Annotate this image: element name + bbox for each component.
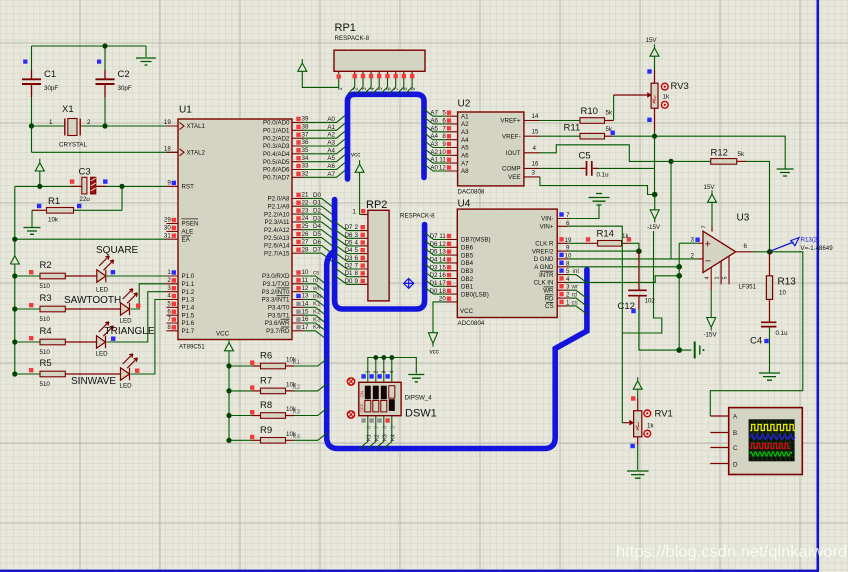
svg-text:vcc: vcc: [351, 152, 360, 159]
svg-text:27: 27: [302, 239, 309, 246]
U2 pins A1-A8 stubs: [447, 116, 458, 171]
RP1 pin1 wire to power: [302, 71, 338, 87]
svg-text:13: 13: [302, 293, 309, 300]
ground (C4): [759, 373, 780, 380]
svg-text:P0.7/AD7: P0.7/AD7: [263, 175, 290, 182]
svg-text:P1.6: P1.6: [182, 320, 195, 327]
net labels D7-D0 (RP2 side): [345, 224, 353, 285]
voltage probe R13(2): [771, 242, 794, 251]
resistor R8: [226, 408, 326, 418]
resistor R5: [15, 368, 121, 377]
ground terminal (analog, right-pointing): [695, 342, 700, 359]
U1 pins P0.0/AD0-P0.7/AD7: [292, 122, 304, 177]
svg-text:2: 2: [167, 277, 171, 284]
ground (RV1): [627, 471, 649, 478]
U1 pin XTAL2: [167, 149, 185, 156]
node CLK IN: [676, 273, 682, 279]
U1 pin PSEN: [167, 223, 179, 225]
svg-text:R1: R1: [48, 196, 60, 207]
svg-text:P2.3/A11: P2.3/A11: [265, 219, 291, 226]
svg-text:1: 1: [167, 269, 171, 276]
svg-text:K2: K2: [293, 384, 301, 391]
svg-text:P1.2: P1.2: [182, 289, 195, 296]
potentiometer RV3: [614, 37, 689, 136]
svg-text:K3: K3: [293, 409, 301, 416]
net labels A0-A7 (U1 side): [327, 116, 335, 178]
svg-text:4: 4: [390, 370, 396, 373]
node output: [767, 249, 773, 255]
svg-text:D3: D3: [345, 255, 353, 262]
svg-text:3: 3: [362, 87, 368, 90]
svg-text:26: 26: [302, 231, 309, 238]
svg-text:8: 8: [366, 426, 372, 429]
svg-text:39: 39: [302, 116, 309, 123]
svg-text:R13: R13: [778, 277, 797, 288]
svg-text:A4: A4: [461, 137, 469, 144]
svg-text:RP2: RP2: [366, 199, 387, 211]
RP2 wires from data bus: [335, 222, 360, 285]
svg-text:5k: 5k: [606, 126, 613, 133]
crystal X1: [65, 119, 80, 136]
svg-text:D3: D3: [313, 215, 321, 222]
svg-text:U4: U4: [458, 199, 471, 210]
svg-text:A5: A5: [461, 145, 469, 152]
svg-text:DSW1: DSW1: [405, 408, 437, 420]
svg-text:D6: D6: [313, 239, 321, 246]
svg-text:SAWTOOTH: SAWTOOTH: [64, 295, 121, 306]
svg-text:D2: D2: [313, 208, 321, 215]
svg-text:510: 510: [40, 381, 51, 388]
svg-text:https://blog.csdn.net/qinkaiwo: https://blog.csdn.net/qinkaiword: [616, 543, 847, 561]
svg-text:7: 7: [702, 225, 708, 228]
svg-text:3: 3: [691, 236, 695, 243]
svg-text:DB6: DB6: [461, 245, 474, 252]
15V terminal (op-amp): [708, 190, 717, 231]
svg-text:1k: 1k: [663, 94, 670, 101]
svg-text:P3.7/RD: P3.7/RD: [266, 328, 290, 335]
-15V terminal (DAC): [650, 195, 659, 223]
svg-text:RESPACK-8: RESPACK-8: [400, 213, 435, 220]
svg-text:30pF: 30pF: [44, 85, 58, 92]
svg-text:2: 2: [87, 119, 91, 126]
svg-text:ADC0804: ADC0804: [458, 320, 485, 327]
power terminal above RST row: [35, 159, 44, 187]
wire VCC rail left: [14, 186, 16, 374]
svg-text:P2.4/A12: P2.4/A12: [264, 227, 290, 234]
U4 A GND wire: [568, 266, 679, 268]
wire op-amp pin3 ground net riser: [679, 243, 698, 350]
svg-text:30: 30: [164, 225, 171, 232]
bus: RP1 address bus loop: [348, 94, 425, 179]
VCC terminal under U1: [225, 340, 234, 441]
svg-text:D5: D5: [313, 231, 321, 238]
svg-text:C3: C3: [79, 167, 91, 178]
svg-text:P1.1: P1.1: [182, 281, 195, 288]
svg-text:14: 14: [532, 113, 539, 120]
svg-text:1: 1: [715, 276, 721, 279]
svg-text:6: 6: [167, 308, 171, 315]
DSW1 slot 2: [373, 386, 379, 400]
svg-text:DB7(MSB): DB7(MSB): [461, 237, 491, 244]
U1 P2 net wires D0-D7 into data bus: [304, 198, 335, 263]
wire C3 to RST pin: [106, 185, 167, 187]
net labels int wr rd cs (U4 side): [571, 268, 580, 306]
svg-text:DIPSW_4: DIPSW_4: [405, 395, 433, 402]
svg-text:R7: R7: [260, 375, 272, 386]
svg-text:29: 29: [164, 217, 171, 224]
bus: data bus U-loop (P2 to RP2/U4): [335, 200, 425, 310]
node C3/R1: [119, 184, 124, 189]
net labels D0-D7 (U1 side): [313, 192, 321, 254]
svg-text:8: 8: [167, 324, 171, 331]
svg-text:D4: D4: [345, 247, 353, 254]
svg-text:A1: A1: [430, 157, 438, 164]
RP1 pin 1: [338, 71, 340, 74]
svg-text:R14: R14: [597, 229, 614, 240]
svg-text:D7: D7: [345, 224, 353, 231]
capacitor C5: [540, 161, 655, 176]
svg-text:1k: 1k: [622, 233, 629, 240]
ground (R1): [24, 228, 41, 235]
svg-text:WR: WR: [543, 287, 554, 294]
svg-text:A0: A0: [327, 116, 335, 123]
svg-text:15V: 15V: [646, 37, 658, 44]
svg-text:VIN+: VIN+: [540, 224, 554, 231]
svg-text:VCC: VCC: [216, 331, 230, 338]
svg-text:3: 3: [167, 285, 171, 292]
svg-text:OFF: OFF: [359, 403, 364, 412]
svg-text:K4: K4: [293, 433, 301, 440]
svg-text:R13(2): R13(2): [801, 237, 820, 244]
ground (top, crystal caps): [136, 58, 156, 65]
svg-text:1: 1: [366, 370, 372, 373]
svg-text:R3: R3: [40, 293, 52, 304]
svg-text:D2: D2: [345, 263, 353, 270]
svg-text:VIN-: VIN-: [541, 216, 553, 223]
wire op-amp output node: [710, 252, 803, 416]
svg-text:+: +: [705, 239, 711, 251]
svg-text:21: 21: [302, 192, 309, 199]
svg-text:38: 38: [302, 124, 309, 131]
LED D-sine: [121, 354, 138, 380]
svg-text:P3.0/RXD: P3.0/RXD: [262, 273, 290, 280]
svg-text:P3.1/TXD: P3.1/TXD: [263, 281, 290, 288]
svg-text:P2.2/A10: P2.2/A10: [264, 211, 290, 218]
DSW1 bottom rotated labels K1-K4: [366, 434, 396, 441]
svg-text:D7: D7: [313, 247, 321, 254]
svg-text:INTR: INTR: [539, 272, 554, 279]
svg-text:23: 23: [302, 207, 309, 214]
wire RST row: [15, 185, 71, 187]
node C1/C2 top junction: [102, 43, 107, 48]
svg-text:A4: A4: [430, 133, 438, 140]
svg-text:10: 10: [779, 290, 786, 297]
U3 pin5 stub: [728, 256, 730, 284]
svg-text:XTAL2: XTAL2: [187, 150, 206, 157]
svg-text:cs: cs: [313, 269, 319, 276]
svg-text:P2.5/A13: P2.5/A13: [264, 235, 290, 242]
svg-text:P0.5/AD5: P0.5/AD5: [263, 159, 290, 166]
svg-text:P0.3/AD3: P0.3/AD3: [263, 143, 290, 150]
svg-text:7: 7: [374, 426, 380, 429]
waveform D green sine: [750, 452, 792, 456]
capacitor C3 (electrolytic): [71, 185, 106, 187]
U1 pin ALE: [167, 230, 179, 232]
svg-text:RESPACK-8: RESPACK-8: [335, 35, 370, 42]
U2 right pins: [524, 121, 540, 177]
svg-text:33: 33: [302, 163, 309, 170]
svg-text:P0.0/AD0: P0.0/AD0: [263, 120, 290, 127]
DSW1 top wires to ground: [368, 358, 417, 383]
svg-text:VEE: VEE: [508, 174, 520, 181]
svg-text:5k: 5k: [606, 110, 613, 117]
svg-text:K4: K4: [313, 324, 321, 331]
U4 control wires into bus: [568, 275, 587, 315]
resistor R12: [671, 159, 770, 252]
svg-text:15V: 15V: [704, 184, 716, 191]
svg-text:4: 4: [370, 87, 376, 90]
svg-text:17: 17: [302, 324, 309, 331]
svg-text:16: 16: [532, 161, 539, 168]
svg-text:intr: intr: [313, 293, 322, 300]
node R5 rail: [12, 371, 17, 376]
svg-text:XTAL1: XTAL1: [187, 123, 206, 130]
svg-text:rd: rd: [313, 277, 319, 284]
svg-text:2: 2: [374, 370, 380, 373]
svg-text:34: 34: [302, 155, 309, 162]
svg-text:K3: K3: [313, 316, 321, 323]
svg-text:P3.2/INT0: P3.2/INT0: [262, 289, 290, 296]
svg-text:P1.5: P1.5: [182, 312, 195, 319]
DSW1 top pin squares: [361, 374, 389, 378]
svg-text:K1: K1: [293, 359, 301, 366]
svg-text:A8: A8: [461, 168, 469, 175]
node -15V: [652, 192, 658, 198]
svg-text:LED: LED: [96, 351, 109, 358]
resistor R1: [47, 208, 74, 214]
DSW1 toggle markers: [347, 378, 354, 418]
U1 pins P3.0-P3.7: [292, 276, 304, 331]
svg-text:0.1u: 0.1u: [776, 330, 789, 337]
waveform A yellow square: [750, 425, 795, 431]
node crystal pin2: [102, 123, 107, 128]
U2 VEE wire to -15V node: [540, 177, 655, 195]
svg-text:5: 5: [723, 276, 729, 279]
svg-text:SQUARE: SQUARE: [96, 245, 139, 256]
svg-text:P3.6/WR: P3.6/WR: [265, 320, 290, 327]
resistor R11: [540, 131, 785, 169]
svg-text:4: 4: [533, 145, 537, 152]
RP1 pins 2-9: [353, 74, 415, 78]
LED D-sawtooth: [121, 289, 138, 315]
svg-text:C4: C4: [750, 336, 762, 347]
svg-text:D: D: [733, 462, 738, 469]
svg-text:15: 15: [302, 308, 309, 315]
svg-text:RV1: RV1: [655, 409, 673, 420]
U4 D GND wire to op-amp pin2 row: [568, 258, 698, 260]
svg-text:510: 510: [40, 349, 51, 356]
DSW1 slot 3: [381, 386, 387, 400]
svg-text:6: 6: [387, 87, 393, 90]
op-amp U3 LF351: [691, 213, 757, 291]
svg-text:TRIANGLE: TRIANGLE: [105, 326, 155, 337]
svg-text:ALE: ALE: [182, 229, 194, 236]
svg-text:CLK R: CLK R: [535, 241, 554, 248]
RP2 pins 2-9 stubs: [359, 231, 368, 285]
svg-text:9: 9: [167, 180, 171, 187]
net labels A7-A0 (U2 side): [430, 110, 438, 172]
svg-text:A7: A7: [461, 160, 469, 167]
VREF- riser down to -15V node: [654, 136, 656, 194]
svg-text:5: 5: [390, 426, 396, 429]
resistor R9: [226, 433, 326, 443]
svg-text:31: 31: [164, 232, 171, 239]
net labels cs rd wr intr K1-K4 (U1 side): [312, 269, 322, 331]
svg-text:D0: D0: [313, 192, 321, 199]
U4 VCC wire and vcc terminal: [428, 302, 446, 347]
svg-text:28: 28: [302, 246, 309, 253]
svg-text:A7: A7: [327, 171, 335, 178]
svg-text:12: 12: [302, 285, 309, 292]
svg-text:RV3: RV3: [671, 81, 689, 92]
svg-text:6: 6: [382, 426, 388, 429]
svg-text:LF351: LF351: [739, 284, 757, 291]
svg-text:36: 36: [302, 139, 309, 146]
svg-text:EA: EA: [182, 236, 191, 243]
sheet border right edge: [816, 0, 819, 571]
resistor R10: [540, 118, 614, 124]
svg-text:9: 9: [411, 87, 417, 90]
U1 P3 net wires cs rd wr intr K1-K4 into control bus: [304, 276, 327, 340]
U3 pin2 stub: [698, 258, 703, 260]
net labels D7-D0 (U4 side): [430, 233, 438, 295]
svg-text:5: 5: [167, 301, 171, 308]
resistor R14: [568, 237, 639, 251]
svg-text:RST: RST: [182, 184, 195, 191]
node A GND: [676, 264, 682, 270]
svg-text:35: 35: [302, 147, 309, 154]
svg-text:V=-1.48649: V=-1.48649: [801, 245, 834, 252]
waveform B blue sine: [750, 435, 795, 440]
svg-text:VREF-: VREF-: [502, 133, 521, 140]
svg-text:32: 32: [302, 171, 309, 178]
U1 pin EA: [167, 238, 179, 240]
node summing: [668, 159, 673, 164]
svg-text:R2: R2: [40, 260, 52, 271]
svg-text:4: 4: [167, 293, 171, 300]
svg-text:R11: R11: [564, 123, 581, 134]
svg-text:PSEN: PSEN: [182, 221, 199, 228]
svg-text:P1.3: P1.3: [182, 297, 195, 304]
svg-text:24: 24: [302, 215, 309, 222]
U4 pins DB7-DB0 stubs: [447, 240, 458, 302]
svg-text:COMP: COMP: [502, 166, 521, 173]
U3 pin1 stub: [720, 261, 722, 284]
node crystal pin1: [29, 123, 34, 128]
node R2 rail: [12, 273, 17, 278]
resistor R3: [15, 303, 121, 312]
svg-text:A2: A2: [461, 121, 469, 128]
svg-text:-15V: -15V: [647, 224, 661, 231]
wire XTAL1 row: [32, 125, 179, 127]
svg-text:A7: A7: [430, 110, 438, 117]
svg-text:VREF+: VREF+: [500, 118, 521, 125]
ground (DSW1): [408, 375, 424, 382]
svg-text:DB0(LSB): DB0(LSB): [461, 292, 489, 299]
svg-text:D6: D6: [345, 232, 353, 239]
wire R1 riser: [74, 186, 123, 210]
U1 pins P1.0-P1.7: [167, 276, 179, 331]
svg-text:P2.0/A8: P2.0/A8: [267, 196, 290, 203]
svg-text:P1.7: P1.7: [182, 328, 195, 335]
ground (VIN-): [568, 194, 610, 219]
potentiometer RV1: [624, 377, 673, 478]
svg-text:11: 11: [302, 277, 309, 284]
svg-text:D1: D1: [345, 270, 353, 277]
capacitor C4: [761, 315, 776, 327]
svg-text:vcc: vcc: [430, 349, 439, 356]
svg-text:A5: A5: [430, 125, 438, 132]
svg-text:VREF/2: VREF/2: [532, 248, 554, 255]
wire -15V branch to RV1 column: [622, 231, 662, 333]
svg-text:16: 16: [302, 316, 309, 323]
wire summing to op-amp inverting input: [670, 161, 672, 259]
svg-text:SINWAVE: SINWAVE: [71, 376, 116, 387]
svg-text:510: 510: [40, 316, 51, 323]
svg-text:RP1: RP1: [335, 22, 356, 34]
svg-text:A3: A3: [461, 129, 469, 136]
svg-text:R10: R10: [581, 106, 598, 117]
capacitor C2: [96, 70, 115, 97]
U4 CLK IN wire: [568, 276, 679, 283]
svg-text:DB2: DB2: [461, 276, 474, 283]
svg-text:A6: A6: [430, 118, 438, 125]
svg-text:510: 510: [40, 283, 51, 290]
svg-text:IOUT: IOUT: [506, 150, 521, 157]
node C12-ground: [676, 347, 682, 353]
sheet border bottom edge: [0, 570, 819, 572]
svg-text:7: 7: [167, 316, 171, 323]
svg-text:5k: 5k: [738, 151, 745, 158]
waveform C red square: [750, 444, 790, 449]
svg-text:25: 25: [302, 223, 309, 230]
svg-text:R12: R12: [711, 148, 728, 159]
U1 pins P2.0/A8-P2.7/A15: [292, 198, 304, 253]
svg-text:K1: K1: [366, 434, 372, 441]
svg-text:R6: R6: [260, 351, 272, 362]
svg-text:A1: A1: [461, 113, 469, 120]
svg-text:4: 4: [705, 276, 711, 279]
svg-text:R9: R9: [260, 425, 272, 436]
svg-text:19: 19: [164, 119, 171, 126]
svg-text:-15V: -15V: [704, 332, 718, 339]
svg-text:DB4: DB4: [461, 260, 474, 267]
U3 pin4 stub: [710, 268, 712, 291]
svg-text:A3: A3: [430, 141, 438, 148]
DSW1 slot 4: [389, 386, 395, 398]
wire XTAL2 row: [32, 126, 179, 152]
svg-text:37: 37: [302, 131, 309, 138]
svg-text:C5: C5: [579, 151, 591, 162]
svg-text:U2: U2: [458, 99, 471, 110]
svg-text:P1.0: P1.0: [182, 273, 195, 280]
svg-text:R4: R4: [40, 326, 52, 337]
svg-text:14: 14: [302, 301, 309, 308]
svg-text:C2: C2: [118, 69, 130, 80]
DSW1 slot 1: [365, 386, 371, 400]
svg-text:K2: K2: [374, 434, 380, 441]
capacitor C1: [22, 70, 41, 97]
